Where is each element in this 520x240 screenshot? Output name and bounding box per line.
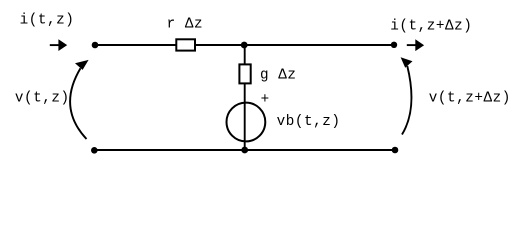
node bottom-right [392, 147, 399, 154]
svg-text:v(t,z+Δz): v(t,z+Δz) [429, 90, 511, 106]
wire shunt vertical [244, 45, 246, 150]
resistor R (series r dz) [176, 39, 195, 50]
svg-text:i(t,z): i(t,z) [20, 13, 75, 29]
arrow current right [407, 39, 424, 51]
arrow voltage right (arc) [401, 57, 413, 134]
resistor G (shunt g dz) [239, 64, 250, 83]
arrow voltage left (arc) [70, 60, 89, 139]
svg-text:+: + [261, 92, 270, 108]
svg-text:vb(t,z): vb(t,z) [277, 114, 341, 130]
node junction top [241, 42, 248, 49]
wire top right of resistor [195, 44, 394, 46]
svg-text:v(t,z): v(t,z) [15, 90, 70, 106]
wire bottom [94, 149, 395, 151]
node bottom-middle [241, 147, 248, 154]
node top-left [92, 42, 99, 49]
node top-right [391, 42, 397, 48]
svg-text:i(t,z+Δz): i(t,z+Δz) [390, 18, 472, 34]
svg-text:g Δz: g Δz [260, 68, 297, 84]
arrow current left [50, 39, 67, 51]
node bottom-left [91, 147, 98, 154]
wire top left [95, 44, 177, 46]
svg-text:r Δz: r Δz [167, 17, 204, 33]
source VB (circle) [227, 103, 266, 142]
